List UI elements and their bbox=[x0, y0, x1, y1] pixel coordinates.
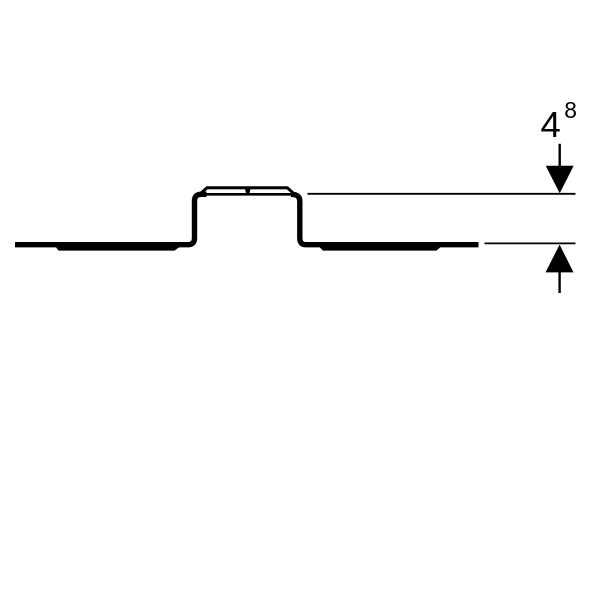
svg-text:8: 8 bbox=[564, 97, 577, 123]
extension line lower (flange level) bbox=[485, 242, 576, 244]
underlay sheet right segment bbox=[319, 247, 441, 251]
dimension arrow down bbox=[546, 166, 574, 194]
svg-text:4: 4 bbox=[541, 104, 561, 145]
dimension arrow down tail bbox=[559, 144, 561, 167]
rail profile right: right vertical of top-hat + flange bbox=[291, 194, 479, 244]
extension line upper (top of rail level) bbox=[308, 193, 576, 195]
rail profile left: flange + left vertical of top-hat bbox=[15, 194, 207, 244]
rail top horizontal (thin top of hat) bbox=[201, 193, 296, 196]
underlay sheet left segment bbox=[56, 247, 181, 251]
cap centre seam tick bbox=[245, 189, 251, 196]
dimension arrow up tail bbox=[558, 272, 560, 293]
cap plate over hat top bbox=[201, 188, 294, 194]
dimension arrow up bbox=[546, 245, 574, 273]
